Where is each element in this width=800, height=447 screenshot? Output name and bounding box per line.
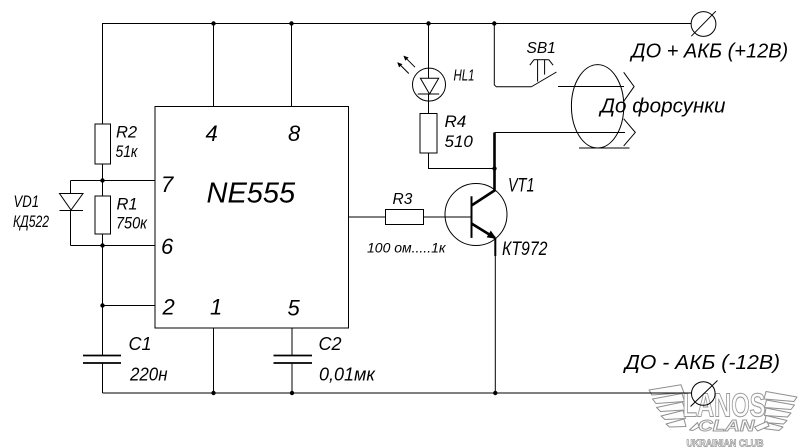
svg-text:ДО + АКБ (+12В): ДО + АКБ (+12В): [630, 41, 789, 63]
wire pin 7 horizontal: [71, 180, 156, 182]
svg-text:R2: R2: [116, 124, 137, 142]
svg-text:VT1: VT1: [508, 175, 535, 197]
svg-text:HL1: HL1: [454, 68, 475, 85]
wire SB1 branch from top bus: [494, 24, 531, 87]
svg-text:VD1: VD1: [14, 193, 40, 211]
svg-text:0,01мк: 0,01мк: [319, 365, 376, 385]
node dot pin1 ground bus: [211, 391, 215, 395]
svg-text:КД522: КД522: [13, 213, 49, 231]
wire emitter vertical to ground bus: [494, 255, 496, 393]
resistor R1: [95, 196, 111, 234]
svg-text:C1: C1: [129, 334, 152, 354]
transistor VT1: [445, 133, 507, 257]
capacitor C1: [83, 356, 121, 364]
wire HL1 cathode to R4: [428, 94, 430, 114]
wire HL1 branch from top bus: [428, 24, 430, 79]
svg-text:7: 7: [161, 172, 174, 197]
wire pin 5 to C2: [291, 328, 293, 356]
terminal +12V slash: [691, 11, 716, 36]
wire C2 bottom to ground bus: [291, 363, 293, 393]
terminal -12V slash: [691, 381, 718, 407]
svg-text:NE555: NE555: [207, 178, 297, 210]
svg-text:КТ972: КТ972: [502, 238, 548, 260]
wire pin 8 vertical: [291, 24, 293, 107]
wire pin 4 vertical: [213, 24, 215, 107]
node dot R2 R1 junction: [100, 178, 104, 182]
node dot SB1 top bus: [492, 21, 496, 25]
svg-text:CLAN: CLAN: [698, 418, 755, 435]
node dot C2 ground bus: [290, 391, 294, 395]
svg-text:6: 6: [161, 234, 174, 259]
LED HL1: [398, 57, 445, 101]
transistor VT1 emitter arrowhead: [487, 231, 497, 239]
wire pin 1 vertical: [213, 328, 215, 393]
svg-text:750к: 750к: [116, 215, 148, 233]
logo Lanos Clan watermark: [649, 385, 797, 447]
svg-text:220н: 220н: [129, 365, 168, 385]
node dot emitter ground bus: [493, 391, 497, 395]
connector ellipse До форсунки: [571, 65, 623, 148]
wire R3 to base of VT1: [424, 216, 472, 218]
wire R2 bottom to node pin7: [102, 164, 104, 196]
wire pin 2 horizontal: [103, 305, 156, 307]
wire pin 6 horizontal: [71, 245, 156, 247]
terminal -12V circle: [692, 382, 716, 406]
node dot pin6 junction: [100, 243, 104, 247]
node dot pin2 junction: [100, 303, 104, 307]
pushbutton SB1: [530, 60, 557, 87]
op-amp timer IC NE555 body: [155, 107, 349, 329]
wire C1 bottom to ground bus: [102, 363, 104, 393]
wire SB1 right terminal to connector arrow: [558, 86, 624, 88]
svg-text:C2: C2: [319, 334, 342, 354]
svg-text:1: 1: [210, 295, 222, 320]
node dot pin8 top bus: [289, 21, 293, 25]
diode VD1: [60, 194, 84, 211]
capacitor C2: [274, 356, 313, 364]
resistor R4: [420, 114, 437, 154]
connector arrow upper: [624, 72, 634, 101]
wire collector line to connector arrow: [495, 132, 626, 134]
wire R4 bottom elbow to collector: [429, 153, 495, 169]
LED HL1 emission arrowheads: [397, 56, 408, 68]
svg-text:R3: R3: [393, 191, 413, 208]
terminal +12V circle: [691, 12, 716, 37]
svg-text:До форсунки: До форсунки: [598, 96, 725, 118]
svg-text:UKRAINIAN CLUB: UKRAINIAN CLUB: [687, 438, 764, 447]
resistor R3: [386, 210, 424, 225]
wire diode branch lower: [70, 211, 72, 246]
svg-text:ДО - АКБ (-12В): ДО - АКБ (-12В): [623, 352, 780, 374]
wire pin 3 output to R3: [349, 216, 386, 218]
svg-text:510: 510: [445, 132, 474, 151]
svg-text:R4: R4: [445, 112, 467, 131]
wire left vertical node2 to C1: [102, 306, 104, 356]
node dot pin4 top bus: [211, 21, 215, 25]
svg-text:SB1: SB1: [527, 40, 556, 57]
svg-text:100 ом.....1к: 100 ом.....1к: [367, 240, 447, 256]
wire diode branch upper: [70, 181, 72, 194]
node dot R4 collector junction: [492, 166, 496, 170]
wire top +12V bus: [102, 23, 691, 25]
resistor R2: [95, 124, 111, 164]
svg-text:8: 8: [288, 121, 301, 146]
wire left vertical node6 to node2: [102, 246, 104, 306]
node dot HL1 top bus: [426, 21, 430, 25]
wire R1 bottom to node pin6: [102, 234, 104, 246]
wire bottom -12V bus: [103, 392, 692, 394]
connector lower baseline tick: [579, 147, 630, 149]
svg-text:5: 5: [288, 296, 301, 321]
connector arrow lower: [624, 119, 636, 146]
svg-text:R1: R1: [117, 196, 138, 214]
svg-text:51к: 51к: [116, 143, 139, 161]
svg-text:2: 2: [162, 295, 175, 320]
wire left vertical from top bus to R2: [102, 24, 104, 125]
svg-text:4: 4: [206, 121, 218, 146]
